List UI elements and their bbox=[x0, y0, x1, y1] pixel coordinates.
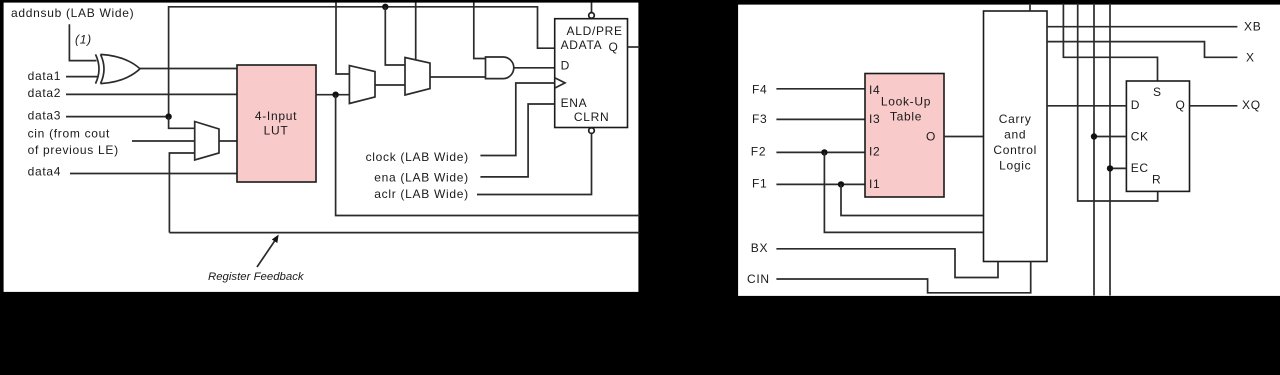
wire: bus line 1 (S set) bbox=[1063, 4, 1157, 82]
wire: data4 to LUT input 4 bbox=[70, 173, 237, 175]
svg-text:aclr (LAB Wide): aclr (LAB Wide) bbox=[374, 187, 469, 201]
node: clear bubble below register bbox=[589, 128, 595, 134]
svg-text:ADATA: ADATA bbox=[561, 38, 603, 52]
svg-text:CIN: CIN bbox=[747, 272, 770, 286]
svg-text:ENA: ENA bbox=[561, 96, 588, 110]
svg-text:D: D bbox=[561, 59, 570, 73]
svg-text:CK: CK bbox=[1131, 129, 1149, 143]
wire: LUT O output to carry logic bbox=[944, 136, 984, 138]
wire: aclr to clear bubble bbox=[477, 134, 592, 195]
svg-text:D: D bbox=[1131, 98, 1140, 112]
AND gate bbox=[486, 57, 514, 79]
svg-text:Look-Up: Look-Up bbox=[881, 95, 931, 109]
wire: F1 to LUT bbox=[776, 183, 870, 185]
flip-flop block bbox=[1126, 81, 1189, 191]
wire: branch from top-line dot down to sync mux top input bbox=[385, 7, 405, 65]
svg-text:I1: I1 bbox=[869, 177, 880, 191]
wire: F2 to LUT bbox=[776, 151, 870, 153]
node: preset bubble bbox=[589, 13, 595, 19]
svg-text:addnsub (LAB Wide): addnsub (LAB Wide) bbox=[11, 6, 134, 20]
wire: bus line 4 (enable) bbox=[1109, 4, 1111, 296]
svg-text:data4: data4 bbox=[28, 164, 62, 178]
wire: clock to register bbox=[480, 83, 554, 156]
svg-text:(1): (1) bbox=[75, 33, 92, 47]
XOR gate bbox=[96, 54, 141, 83]
wire: data3 branch down to cin mux top input bbox=[169, 117, 195, 129]
svg-text:Q: Q bbox=[609, 40, 619, 54]
wire: cin mux output to LUT bbox=[219, 140, 237, 142]
svg-text:F1: F1 bbox=[752, 177, 767, 191]
svg-text:XB: XB bbox=[1244, 20, 1261, 34]
svg-text:data3: data3 bbox=[28, 109, 62, 123]
wire: CK input bbox=[1094, 136, 1126, 138]
4-Input LUT block bbox=[237, 65, 316, 182]
wire: X output bbox=[1047, 42, 1237, 58]
svg-text:cin (from cout: cin (from cout bbox=[28, 127, 111, 141]
node: EC junction dot bbox=[1107, 165, 1113, 171]
svg-text:Q: Q bbox=[1176, 98, 1186, 112]
svg-text:X: X bbox=[1246, 50, 1255, 64]
svg-text:of previous LE): of previous LE) bbox=[28, 143, 119, 157]
wire: AND output to register D bbox=[514, 67, 555, 69]
svg-text:data1: data1 bbox=[28, 69, 62, 83]
wire: carry top to panel border bbox=[1029, 4, 1031, 12]
svg-text:O: O bbox=[926, 129, 936, 143]
Carry and Control Logic block bbox=[984, 11, 1048, 262]
wire: mux1 output to sync mux bbox=[375, 84, 405, 86]
svg-text:clock (LAB Wide): clock (LAB Wide) bbox=[366, 150, 469, 164]
wire: vertical from top border to mux1 top input bbox=[336, 3, 349, 75]
wire: D input from carry logic bbox=[1047, 105, 1126, 107]
wire: register feedback up to cin mux bottom input bbox=[169, 153, 194, 233]
Look-Up Table block bbox=[865, 74, 944, 198]
wire: bus line 3 (clock) bbox=[1093, 4, 1095, 296]
svg-text:BX: BX bbox=[751, 241, 768, 255]
svg-text:I2: I2 bbox=[869, 145, 880, 159]
wire: ADATA feed top line (data3 net) bbox=[169, 7, 555, 117]
clock triangle on register bbox=[555, 78, 565, 88]
svg-text:I3: I3 bbox=[869, 112, 880, 126]
node: F2 junction dot bbox=[821, 149, 827, 155]
node: F1 junction dot bbox=[838, 181, 844, 187]
wire: EC input bbox=[1110, 167, 1126, 169]
mux: carry-in select mux bbox=[195, 122, 219, 161]
svg-text:F2: F2 bbox=[751, 145, 766, 159]
wire: F4 to LUT bbox=[776, 88, 870, 90]
node: data3 junction dot bbox=[165, 113, 171, 119]
svg-text:Register Feedback: Register Feedback bbox=[208, 271, 305, 283]
panel background bbox=[3, 2, 640, 294]
svg-text:F4: F4 bbox=[752, 82, 767, 96]
wire: ena to register bbox=[480, 104, 554, 177]
wire: data3 to junction bbox=[66, 116, 169, 118]
wire: vertical from top border to AND gate top input bbox=[474, 3, 486, 59]
wire: register feedback bottom line bbox=[169, 232, 639, 234]
node: LUT output junction dot bbox=[332, 92, 338, 98]
mux: register bypass mux1 bbox=[349, 66, 375, 104]
node: junction dot on top line feeding sync-load mux bbox=[382, 4, 388, 10]
mux: synchronous load mux2 bbox=[405, 58, 430, 96]
svg-text:LUT: LUT bbox=[264, 124, 289, 138]
panel background bbox=[737, 4, 1280, 298]
arrow: register feedback pointer bbox=[257, 235, 279, 268]
svg-text:Carry: Carry bbox=[999, 112, 1032, 126]
svg-text:CLRN: CLRN bbox=[574, 110, 609, 124]
svg-text:Table: Table bbox=[890, 109, 922, 123]
svg-text:R: R bbox=[1152, 173, 1161, 187]
wire: mux2 output to AND bbox=[430, 76, 486, 78]
wire: BX routing to carry logic bbox=[776, 249, 998, 278]
svg-text:ena (LAB Wide): ena (LAB Wide) bbox=[374, 170, 469, 184]
wire: preset line above register bbox=[591, 3, 593, 13]
svg-text:4-Input: 4-Input bbox=[255, 109, 297, 123]
wire: F1 branch to carry logic bbox=[841, 184, 984, 215]
wire: XQ output bbox=[1190, 105, 1238, 107]
wire: LUT chain branch down and right to panel edge bbox=[336, 95, 640, 216]
svg-text:EC: EC bbox=[1131, 161, 1149, 175]
svg-text:S: S bbox=[1153, 85, 1162, 99]
wire: F3 to LUT bbox=[776, 118, 870, 120]
svg-text:and: and bbox=[1004, 128, 1026, 142]
wire: data1 into XOR bbox=[66, 76, 98, 78]
svg-text:I4: I4 bbox=[869, 83, 880, 97]
svg-text:F3: F3 bbox=[752, 112, 767, 126]
svg-text:ALD/PRE: ALD/PRE bbox=[567, 24, 623, 38]
register block bbox=[555, 19, 628, 128]
svg-text:XQ: XQ bbox=[1242, 98, 1261, 112]
wire: XOR output to LUT input 1 bbox=[140, 68, 237, 70]
wire: addnsub vertical into XOR bbox=[69, 24, 96, 60]
wire: bus line 2 (R reset) bbox=[1078, 4, 1158, 202]
wire: Q output to panel edge bbox=[628, 46, 640, 48]
node: CK junction dot bbox=[1091, 133, 1097, 139]
svg-text:Logic: Logic bbox=[999, 158, 1031, 172]
wire: cin into mux bbox=[132, 140, 195, 142]
svg-text:Control: Control bbox=[993, 143, 1037, 157]
left panel: Stratix logic element schematic bbox=[0, 0, 642, 295]
wire: vertical from top border to sync mux select bbox=[415, 3, 417, 61]
svg-text:data2: data2 bbox=[28, 86, 62, 100]
wire: F2 branch to carry logic bbox=[824, 152, 983, 232]
wire: CIN routing to carry logic bbox=[776, 262, 1030, 293]
wire: XB output bbox=[1047, 26, 1237, 28]
wire: LUT output bbox=[316, 94, 349, 96]
wire: data2 to LUT input 2 bbox=[66, 93, 237, 95]
right panel: Flex logic cell schematic bbox=[735, 0, 1280, 298]
